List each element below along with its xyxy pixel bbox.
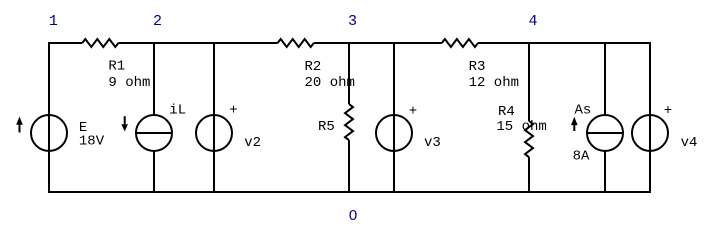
resistor R2 [278,39,314,47]
svg-text:0: 0 [349,207,357,224]
wire left edge (node 1 branch) [48,42,50,192]
resistor R1 [82,39,118,47]
As arrow [571,117,578,131]
svg-text:v4: v4 [681,135,698,151]
current source As [587,115,623,151]
svg-text:4: 4 [528,13,537,30]
svg-text:R1: R1 [108,59,125,75]
wire top segment R1 to R2 [118,42,277,44]
wire top segment R2 to R3 [314,42,442,44]
svg-text:2: 2 [153,13,162,30]
voltage source E [31,115,67,151]
As chord [588,132,622,134]
resistor R5 [345,104,353,140]
wire node 4 upper segment [528,42,530,121]
svg-text:3: 3 [348,13,357,30]
svg-text:20 ohm: 20 ohm [305,75,355,91]
iL arrow [121,116,128,131]
resistor R3 [442,39,478,47]
svg-text:v3: v3 [424,135,441,151]
svg-text:R4: R4 [498,104,515,120]
E arrow [16,117,23,133]
svg-text:v2: v2 [244,135,261,151]
iL chord [137,132,171,134]
svg-text:R5: R5 [318,119,335,135]
voltage source v4 [632,115,668,151]
svg-text:+: + [664,103,672,119]
svg-text:15 ohm: 15 ohm [496,119,546,135]
wire node 4 lower segment [528,157,530,192]
wire node 2 upper segment [153,42,155,116]
svg-text:R2: R2 [305,59,322,75]
wire top segment node1 to R1 [48,42,82,44]
wire node 2 lower segment [153,150,155,192]
svg-text:+: + [409,104,417,120]
wire v2 branch [213,42,215,192]
voltage source v3 [376,115,412,151]
svg-text:iL: iL [169,103,186,119]
svg-text:8A: 8A [573,149,590,165]
svg-text:1: 1 [49,13,58,30]
resistor R4 [525,121,533,157]
wire node 3 lower segment [348,140,350,192]
wire As lower segment [604,150,606,192]
wire right edge (v4 branch) [649,42,651,192]
svg-text:12 ohm: 12 ohm [469,75,519,91]
wire node 3 upper segment [348,42,350,104]
svg-text:R3: R3 [469,59,486,75]
svg-text:+: + [229,102,237,118]
wire bottom rail [48,191,651,193]
voltage source v2 [196,115,232,151]
svg-text:As: As [575,103,592,119]
current source iL [136,115,172,151]
wire top segment R3 to right edge [478,42,650,44]
wire As upper segment [604,42,606,116]
wire v3 branch [393,42,395,192]
svg-text:18V: 18V [79,134,105,150]
svg-text:9 ohm: 9 ohm [108,75,150,91]
